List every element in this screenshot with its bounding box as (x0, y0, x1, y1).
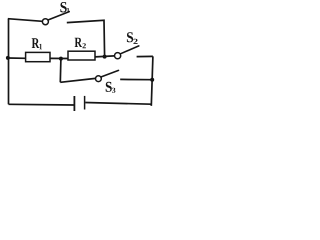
wire: right vertical (151, 56, 153, 106)
wire: vertical from R1-R2 node down to S3 branch (59, 59, 62, 83)
battery plate (right) (84, 96, 86, 110)
node: junction left wire / middle branch (6, 56, 10, 60)
switch S2 blade (121, 46, 139, 54)
switch S3 contact circle (96, 76, 102, 82)
wire: bottom-left to battery (9, 103, 74, 106)
switch S3 blade (101, 70, 118, 77)
label R2 (75, 38, 86, 49)
wire: middle-left stub (8, 57, 26, 59)
switch S2 contact circle (115, 53, 121, 59)
switch S1 contact circle (42, 19, 48, 25)
wire: R2 to S2 (95, 56, 114, 57)
node: junction between R1 and R2 (59, 57, 63, 61)
wire: S2 fixed contact to right wire (137, 55, 153, 57)
label R1 (32, 38, 42, 49)
battery plate (left) (73, 96, 75, 111)
wire: top-left horizontal to S1 (8, 19, 43, 22)
wire: S1 fixed contact to top-right corner (67, 20, 105, 56)
wire: S3 left horizontal (60, 78, 95, 82)
node: junction after R2 (top drop) (103, 55, 107, 59)
wire: between R1 and R2 (50, 57, 68, 59)
wire: battery to bottom-right (85, 103, 151, 105)
label S1 (60, 2, 69, 13)
label S3 (106, 82, 116, 93)
wire: left vertical (8, 19, 10, 104)
label S2 (127, 32, 138, 44)
resistor R2 body (68, 51, 95, 60)
resistor R1 body (26, 52, 50, 61)
wire: S3 fixed contact from right wire (120, 78, 152, 80)
node: junction right wire / S3 branch (150, 78, 154, 82)
switch S1 blade (48, 12, 69, 20)
